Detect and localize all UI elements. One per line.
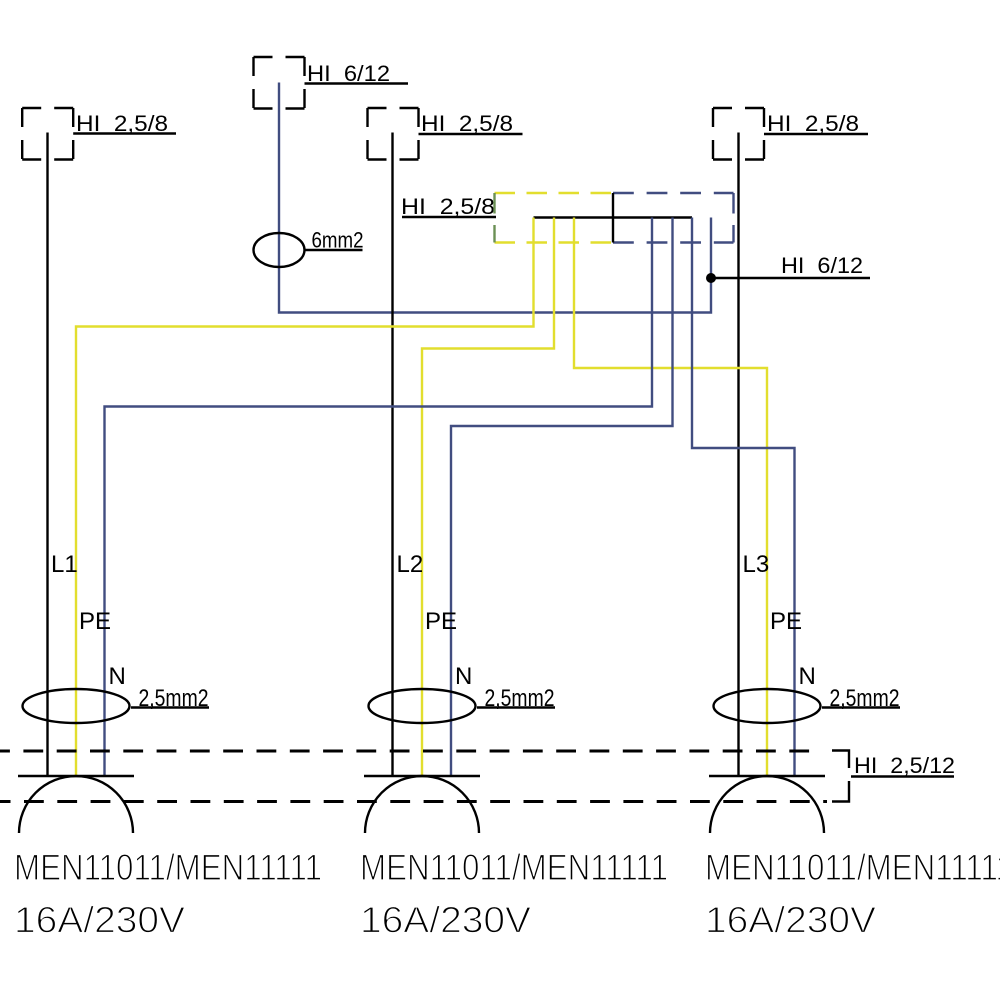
svg-text:HI 2,5/8: HI 2,5/8 <box>76 111 168 136</box>
wire N2 (blue) junction box to outlet 2 <box>451 218 673 777</box>
svg-text:6mm2: 6mm2 <box>312 228 364 253</box>
junction box J1 bottom edge (N side, blue dashed) <box>613 241 734 243</box>
svg-text:16A/230V: 16A/230V <box>14 900 185 941</box>
wire L1 (phase, black) <box>46 133 48 777</box>
callout line HI 6/12 <box>711 277 870 279</box>
zone bracket HI 2,5/12 (top part) <box>832 751 849 769</box>
label underline (circuit 2) <box>419 133 523 135</box>
svg-text:N: N <box>109 663 126 690</box>
svg-text:HI 2,5/12: HI 2,5/12 <box>854 753 955 778</box>
junction box J1 internal bus (black horizontal) <box>534 216 693 218</box>
svg-text:HI 2,5/8: HI 2,5/8 <box>421 111 513 136</box>
zone bracket HI 2,5/12 (bottom part) <box>832 781 849 802</box>
installation zone dashed line (upper) <box>0 750 822 753</box>
svg-text:16A/230V: 16A/230V <box>705 900 876 941</box>
node feed tap (black junction dot) <box>706 273 716 283</box>
outlet 3 terminal bar <box>709 775 825 777</box>
label underline (circuit 1) <box>73 132 176 134</box>
connector symbol K2 (dashed square, circuit 2) <box>368 108 419 160</box>
svg-text:MEN11011/MEN11111: MEN11011/MEN11111 <box>705 847 1000 888</box>
svg-text:L1: L1 <box>51 551 78 578</box>
svg-text:L2: L2 <box>397 551 424 578</box>
outlet 2 terminal bar <box>364 775 480 777</box>
connector symbol K0 (dashed square, feed HI 6/12) <box>254 57 305 109</box>
junction box J1 right edge (blue dashed) <box>732 193 734 243</box>
outlet 3 label underline 2,5mm2 <box>822 706 900 708</box>
wire L2 (phase, black) <box>391 133 393 777</box>
connector symbol K3 (dashed square, circuit 3) <box>713 108 764 160</box>
junction box J1 internal divider (black vertical) <box>612 193 614 243</box>
wire L3 (phase, black) <box>737 133 739 777</box>
wire N3 (blue) junction box to outlet 3 <box>692 218 795 777</box>
wire N1 (blue) junction box to outlet 1 <box>105 218 653 777</box>
outlet 2 cable marker ellipse 2,5mm2 <box>369 689 476 723</box>
svg-text:HI 2,5/8: HI 2,5/8 <box>401 194 495 219</box>
junction box J1 left edge (green dashed) <box>493 193 495 243</box>
svg-text:PE: PE <box>770 608 802 635</box>
cable marker ellipse 6mm2 <box>254 233 305 267</box>
wire PE3 (yellow) junction box to outlet 3 <box>574 218 767 777</box>
connector symbol K1 (dashed square, circuit 1) <box>22 108 73 160</box>
junction box J1 bottom edge (PE side, yellow dashed) <box>495 241 614 243</box>
wire feed N (blue) from HI 6/12 down, right, up to junction box <box>279 83 711 313</box>
svg-text:PE: PE <box>79 608 111 635</box>
label underline 6mm2 <box>305 249 363 251</box>
installation zone dashed line (lower) <box>0 800 827 803</box>
svg-text:HI 2,5/8: HI 2,5/8 <box>767 111 859 136</box>
wire PE1 (yellow) junction box to outlet 1 <box>76 218 534 777</box>
wire PE2 (yellow) junction box to outlet 2 <box>422 218 554 777</box>
outlet 2 label underline 2,5mm2 <box>477 706 555 708</box>
junction box J1 top edge (N side, blue dashed) <box>613 192 734 194</box>
svg-text:MEN11011/MEN11111: MEN11011/MEN11111 <box>14 847 322 888</box>
junction box J1 top edge (PE side, yellow dashed) <box>495 192 614 194</box>
outlet 3 cable marker ellipse 2,5mm2 <box>714 689 821 723</box>
outlet 1 cable marker ellipse 2,5mm2 <box>23 689 130 723</box>
svg-text:HI 6/12: HI 6/12 <box>307 61 390 86</box>
svg-text:N: N <box>455 663 472 690</box>
outlet 1 label underline 2,5mm2 <box>131 706 209 708</box>
outlet 1 terminal bar <box>18 775 134 777</box>
outlet 1 socket arc <box>19 776 133 833</box>
svg-text:PE: PE <box>425 608 457 635</box>
svg-text:N: N <box>799 663 816 690</box>
svg-text:MEN11011/MEN11111: MEN11011/MEN11111 <box>360 847 668 888</box>
label underline (circuit 3) <box>764 133 868 135</box>
zone label underline <box>851 775 954 777</box>
svg-text:HI 6/12: HI 6/12 <box>781 253 863 278</box>
outlet 3 socket arc <box>710 776 824 833</box>
label underline (feed) <box>305 82 409 84</box>
outlet 2 socket arc <box>365 776 479 833</box>
junction box J1 label underline <box>402 216 496 218</box>
svg-text:16A/230V: 16A/230V <box>360 900 531 941</box>
svg-text:L3: L3 <box>743 551 770 578</box>
